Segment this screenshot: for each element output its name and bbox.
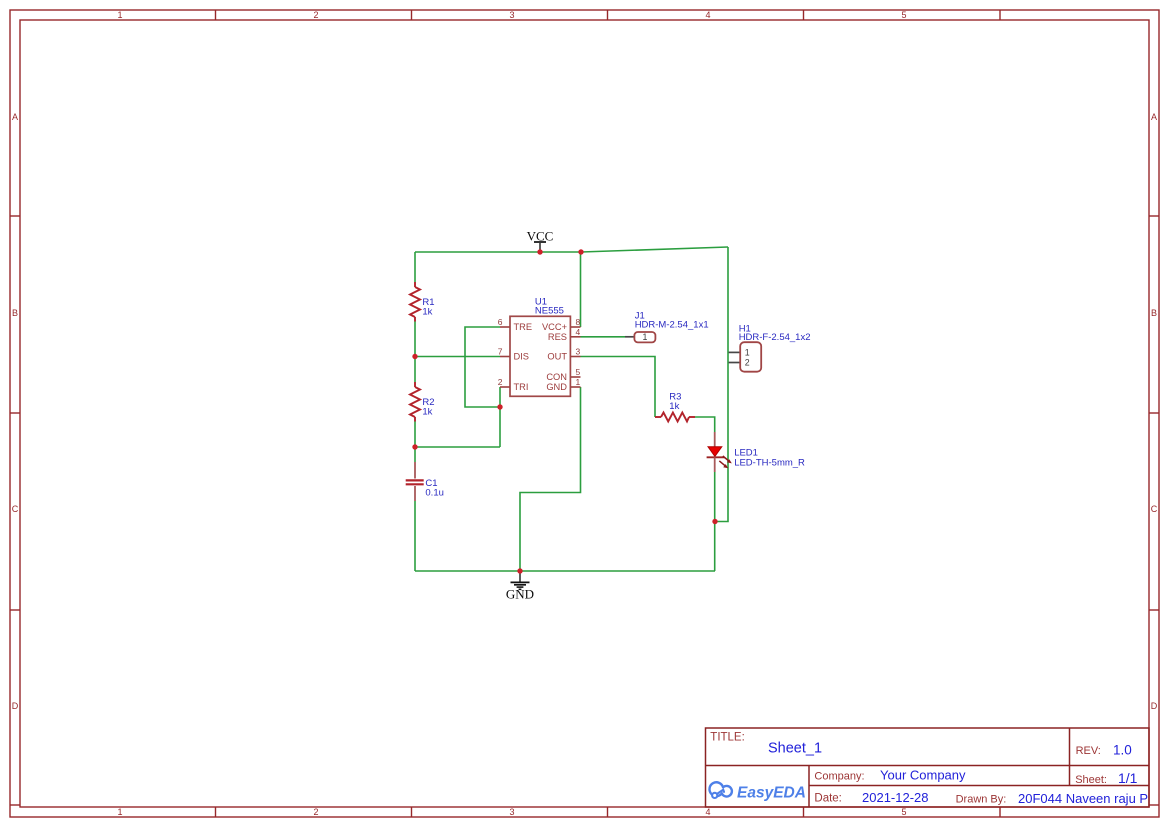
wire C1 bottom bbox=[414, 501, 416, 571]
wire C1 top bbox=[414, 447, 416, 462]
connector H1 bbox=[729, 342, 762, 372]
svg-text:NE555: NE555 bbox=[535, 306, 564, 317]
svg-text:GND: GND bbox=[546, 382, 567, 392]
frame column numbers bottom bbox=[117, 807, 906, 817]
wire DIS horizontal bbox=[415, 356, 500, 358]
svg-text:4: 4 bbox=[705, 807, 710, 817]
junction node GND bbox=[517, 568, 522, 573]
LED LED1 bbox=[707, 432, 732, 472]
svg-text:B: B bbox=[12, 308, 18, 318]
svg-text:Sheet_1: Sheet_1 bbox=[768, 741, 822, 757]
svg-text:5: 5 bbox=[901, 10, 906, 20]
svg-text:3: 3 bbox=[509, 10, 514, 20]
wire pin8 vertical bbox=[580, 252, 582, 327]
svg-text:1k: 1k bbox=[669, 401, 679, 412]
U1 pin numbers bbox=[498, 317, 581, 387]
svg-text:CON: CON bbox=[546, 372, 567, 382]
svg-text:1: 1 bbox=[642, 332, 647, 342]
LED emission arrows bbox=[723, 456, 730, 462]
svg-text:2021-12-28: 2021-12-28 bbox=[862, 790, 929, 805]
svg-text:Date:: Date: bbox=[814, 793, 842, 805]
svg-text:20F044 Naveen raju P: 20F044 Naveen raju P bbox=[1018, 791, 1148, 806]
junction node R2-C1 bbox=[412, 444, 417, 449]
svg-text:3: 3 bbox=[576, 347, 581, 357]
svg-text:1: 1 bbox=[117, 807, 122, 817]
svg-text:EasyEDA: EasyEDA bbox=[737, 785, 806, 802]
svg-text:HDR-M-2.54_1x1: HDR-M-2.54_1x1 bbox=[635, 320, 709, 331]
svg-text:2: 2 bbox=[498, 377, 503, 387]
svg-text:VCC+: VCC+ bbox=[542, 322, 567, 332]
svg-text:C: C bbox=[12, 504, 19, 514]
wire sloped VCC to H1 bbox=[581, 247, 728, 252]
junction node TRE-TRI bbox=[497, 404, 502, 409]
svg-text:1: 1 bbox=[117, 10, 122, 20]
svg-text:HDR-F-2.54_1x2: HDR-F-2.54_1x2 bbox=[739, 332, 811, 343]
svg-text:Company:: Company: bbox=[814, 770, 864, 782]
wire R2 to C1 node bbox=[414, 422, 416, 448]
junction node pin8 branch bbox=[578, 249, 583, 254]
svg-text:TITLE:: TITLE: bbox=[710, 732, 745, 744]
svg-text:GND: GND bbox=[506, 587, 534, 602]
svg-text:1k: 1k bbox=[422, 306, 432, 317]
wire H1 vertical right bbox=[715, 247, 728, 522]
svg-text:6: 6 bbox=[498, 317, 503, 327]
wire R3 to LED bbox=[695, 417, 715, 432]
svg-text:A: A bbox=[12, 112, 18, 122]
svg-text:2: 2 bbox=[745, 358, 750, 368]
svg-text:REV:: REV: bbox=[1076, 745, 1101, 757]
svg-text:TRI: TRI bbox=[514, 382, 529, 392]
wire R1 top bbox=[414, 252, 416, 282]
svg-text:D: D bbox=[1151, 701, 1158, 711]
wire node to TRI branch horizontal bbox=[415, 446, 500, 448]
svg-text:TRE: TRE bbox=[514, 322, 533, 332]
svg-text:7: 7 bbox=[498, 347, 503, 357]
junction node LED-H1 bbox=[712, 519, 717, 524]
wire OUT to R3 bbox=[581, 357, 656, 418]
svg-text:B: B bbox=[1151, 308, 1157, 318]
svg-text:Your Company: Your Company bbox=[880, 768, 966, 783]
frame row letters right bbox=[1151, 112, 1158, 711]
svg-text:Sheet:: Sheet: bbox=[1075, 774, 1107, 786]
wire RES to J1 bbox=[581, 336, 626, 338]
wire R1 to DIS node bbox=[414, 322, 416, 357]
svg-text:1: 1 bbox=[576, 377, 581, 387]
svg-text:4: 4 bbox=[705, 10, 710, 20]
svg-text:C: C bbox=[1151, 504, 1158, 514]
ground symbol GND bbox=[506, 571, 534, 602]
resistor R3 bbox=[655, 413, 695, 422]
svg-text:1.0: 1.0 bbox=[1113, 743, 1132, 758]
capacitor C1 bbox=[406, 462, 424, 501]
frame row letters left bbox=[12, 112, 19, 711]
EasyEDA logo cloud bbox=[710, 782, 732, 798]
svg-text:4: 4 bbox=[576, 327, 581, 337]
title block outline bbox=[706, 728, 1150, 807]
svg-text:5: 5 bbox=[901, 807, 906, 817]
svg-text:2: 2 bbox=[313, 10, 318, 20]
svg-text:Drawn By:: Drawn By: bbox=[956, 794, 1007, 806]
VCC power symbol bbox=[527, 229, 554, 253]
svg-text:DIS: DIS bbox=[514, 352, 530, 362]
wire node to R2 bbox=[414, 357, 416, 383]
svg-text:RES: RES bbox=[548, 332, 567, 342]
svg-text:VCC: VCC bbox=[527, 229, 554, 244]
U1 pin names bbox=[514, 322, 568, 392]
resistor R2 bbox=[410, 382, 420, 422]
wire GND bottom horizontal bbox=[415, 570, 715, 572]
U1 pin stubs bbox=[500, 327, 581, 387]
svg-text:1: 1 bbox=[745, 348, 750, 358]
wire TRI branch vertical bbox=[499, 387, 501, 447]
svg-text:A: A bbox=[1151, 112, 1157, 122]
svg-text:5: 5 bbox=[576, 367, 581, 377]
svg-text:2: 2 bbox=[313, 807, 318, 817]
svg-text:1k: 1k bbox=[422, 406, 432, 417]
svg-text:0.1u: 0.1u bbox=[425, 488, 444, 499]
svg-text:OUT: OUT bbox=[547, 352, 567, 362]
svg-text:1/1: 1/1 bbox=[1118, 770, 1138, 786]
wire TRI node to TRE branch bbox=[465, 327, 500, 407]
junction node R1-R2-DIS bbox=[412, 354, 417, 359]
resistor R1 bbox=[410, 282, 420, 322]
wire LED to bottom bbox=[714, 472, 716, 571]
svg-text:LED-TH-5mm_R: LED-TH-5mm_R bbox=[734, 457, 805, 468]
connector J1 bbox=[625, 332, 655, 342]
junction node VCC bbox=[537, 249, 542, 254]
svg-text:D: D bbox=[12, 701, 19, 711]
svg-text:3: 3 bbox=[509, 807, 514, 817]
wire VCC top horizontal bbox=[415, 251, 581, 253]
frame column numbers top bbox=[117, 10, 906, 20]
wire IC gnd pin down bbox=[520, 387, 581, 571]
svg-text:8: 8 bbox=[576, 317, 581, 327]
op IC U1 NE555 body bbox=[510, 316, 570, 396]
